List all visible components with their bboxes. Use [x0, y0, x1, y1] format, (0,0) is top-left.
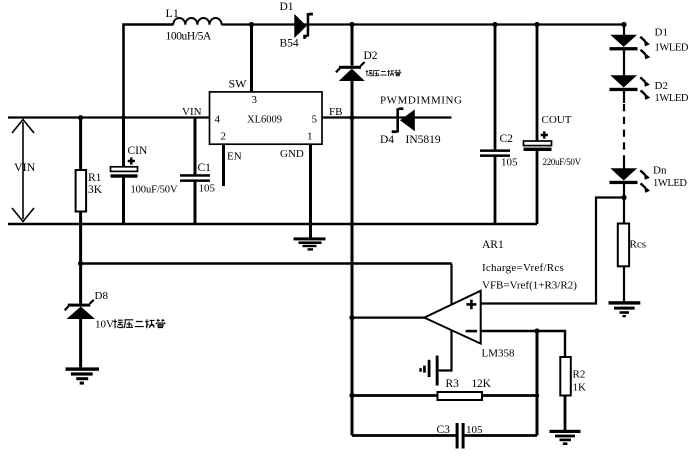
junction dot R3 right/vertical	[535, 393, 539, 397]
svg-text:105: 105	[501, 157, 518, 169]
resistor R3	[438, 392, 483, 400]
resistor R1	[79, 118, 82, 171]
svg-text:1WLED: 1WLED	[655, 43, 689, 54]
LED Dn	[610, 168, 651, 192]
wire sense node link to op-amp plus input	[481, 198, 625, 304]
wire Dn to sense node	[623, 184, 625, 224]
wire top rail left segment with corner down to VIN rail	[124, 25, 174, 119]
resistor Rcs	[618, 224, 629, 267]
wire LED2 down + dashed segment	[623, 91, 625, 103]
wire op-amp supply column through triangle to rotated ground	[439, 264, 452, 371]
label zener-diode (CJK)	[366, 70, 401, 76]
capacitor C3	[456, 423, 459, 449]
capacitor C1	[194, 118, 197, 225]
svg-text:FB: FB	[329, 106, 342, 118]
zener diode D2	[336, 62, 365, 81]
wire FB to PWM	[322, 116, 452, 118]
wire feedback right vertical	[536, 331, 539, 436]
junction dot GND stub/lower rail	[308, 222, 312, 226]
wire LED1-LED2	[623, 50, 625, 75]
junction dot R1/VIN rail	[78, 115, 83, 120]
svg-text:COUT: COUT	[542, 114, 572, 126]
svg-text:D1: D1	[280, 1, 294, 13]
junction dot C2/top rail	[492, 22, 497, 27]
svg-text:R3: R3	[446, 378, 460, 390]
svg-text:R1: R1	[88, 172, 102, 184]
svg-text:D4: D4	[380, 134, 394, 146]
junction dot minus node	[534, 328, 539, 333]
wire trunk vertical at x=352 (D2 leads + feedback column)	[351, 25, 354, 436]
diode D4 schottky	[392, 107, 415, 133]
minus input mark	[466, 330, 477, 333]
LED D2	[610, 75, 651, 100]
svg-text:R2: R2	[573, 369, 586, 381]
junction dot op-amp output/trunk	[349, 315, 354, 320]
svg-text:1WLED: 1WLED	[655, 93, 689, 104]
ground symbol under IC	[294, 237, 326, 250]
svg-text:C2: C2	[500, 133, 514, 145]
svg-text:105: 105	[466, 424, 483, 436]
svg-text:B54: B54	[280, 38, 299, 50]
wire lower rail	[8, 223, 537, 226]
svg-text:SW: SW	[229, 77, 248, 91]
wire Rcs to ground	[623, 266, 625, 301]
svg-text:3K: 3K	[88, 184, 103, 196]
junction dot LED sense node	[621, 195, 626, 200]
junction dot LED branch/top rail	[621, 22, 626, 27]
wire C3 right lead	[465, 434, 537, 437]
svg-text:Dn: Dn	[653, 165, 667, 177]
capacitor COUT (electrolytic)	[536, 25, 539, 225]
svg-text:EN: EN	[227, 151, 242, 163]
ground symbol rotated (op-amp)	[419, 356, 438, 386]
svg-text:VIN: VIN	[182, 106, 202, 118]
junction dot trunk/R3 wire	[349, 393, 354, 398]
inductor L1	[173, 18, 221, 25]
ground symbol under D8	[66, 367, 100, 384]
pin 2 EN stub	[222, 144, 225, 186]
svg-text:CIN: CIN	[128, 145, 149, 157]
svg-text:12K: 12K	[472, 378, 492, 390]
svg-text:100uH/5A: 100uH/5A	[166, 31, 212, 43]
svg-text:Icharge=Vref/Rcs: Icharge=Vref/Rcs	[482, 262, 564, 274]
junction dot D8 node	[78, 261, 83, 266]
VIN source double arrow	[12, 120, 34, 222]
wire VIN rail	[8, 116, 210, 118]
wire top rail main	[222, 25, 624, 36]
svg-text:LM358: LM358	[482, 348, 516, 360]
svg-text:AR1: AR1	[482, 239, 504, 251]
svg-text:PWMDIMMING: PWMDIMMING	[380, 95, 463, 107]
IC U1 XL6009 box	[210, 92, 323, 144]
svg-text:D2: D2	[364, 50, 378, 62]
svg-text:2: 2	[221, 131, 227, 143]
capacitor CIN (electrolytic)	[122, 118, 125, 167]
resistor R2	[560, 357, 571, 396]
svg-text:3: 3	[252, 94, 258, 106]
svg-text:105: 105	[199, 183, 216, 195]
svg-text:1WLED: 1WLED	[653, 178, 687, 189]
wire minus input to R2 top	[481, 331, 566, 357]
svg-text:Rcs: Rcs	[630, 239, 647, 251]
wire R3 left lead	[352, 394, 438, 397]
ground symbol under Rcs	[609, 301, 641, 317]
svg-text:10V: 10V	[95, 319, 114, 331]
junction dot COUT/top rail	[534, 22, 539, 27]
op-amp AR1 LM358	[424, 291, 480, 344]
svg-text:D8: D8	[95, 290, 109, 302]
svg-text:1: 1	[307, 131, 313, 143]
wire op-amp output to trunk	[352, 317, 424, 319]
junction dot D2/FB wire	[349, 115, 354, 120]
svg-text:100uF/50V: 100uF/50V	[131, 185, 178, 196]
zener diode D8	[79, 264, 82, 304]
svg-text:VIN: VIN	[14, 160, 36, 174]
svg-text:1K: 1K	[573, 382, 587, 394]
pin 1 GND stub	[309, 144, 312, 238]
svg-text:XL6009: XL6009	[247, 115, 282, 126]
ground symbol under R2	[550, 430, 581, 445]
wire C3 left lead	[352, 434, 456, 437]
junction dot CIN column/VIN rail	[121, 115, 125, 119]
pin 3 SW stub	[250, 25, 253, 93]
junction dot D2/top rail	[349, 22, 354, 27]
svg-text:5: 5	[312, 114, 318, 126]
LED string: LED D1	[610, 35, 651, 59]
diode D1 schottky	[294, 13, 313, 39]
svg-text:L1: L1	[166, 6, 179, 20]
svg-text:C1: C1	[198, 162, 212, 174]
wire R3 right lead	[482, 394, 537, 397]
svg-text:VFB=Vref(1+R3/R2): VFB=Vref(1+R3/R2)	[482, 279, 577, 291]
capacitor C2	[494, 25, 497, 225]
svg-text:C3: C3	[437, 424, 451, 436]
svg-text:220uF/50V: 220uF/50V	[543, 157, 582, 167]
wire R2 to ground	[564, 396, 567, 431]
junction dot SW/top rail	[249, 22, 254, 27]
wire second supply line	[81, 262, 452, 265]
svg-text:D2: D2	[655, 80, 668, 92]
svg-text:4: 4	[215, 114, 221, 126]
svg-text:IN5819: IN5819	[406, 134, 441, 146]
svg-text:D1: D1	[655, 26, 668, 38]
plus input mark	[466, 303, 476, 306]
svg-text:GND: GND	[280, 148, 304, 160]
